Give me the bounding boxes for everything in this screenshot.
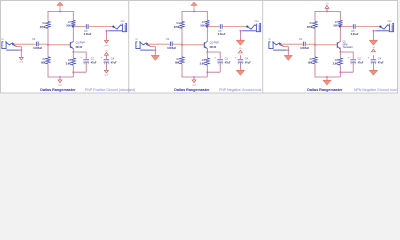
wire: top rail left drop to R1 panel p3 xyxy=(314,11,316,21)
wire: output sleeve to ground panel p3 xyxy=(372,31,374,40)
svg-text:-9V: -9V xyxy=(239,48,243,50)
wire: collector node down to Q1 panel p1 xyxy=(72,27,74,42)
capacitor C1 0.005uF panel p3 xyxy=(302,42,304,47)
junction dot: supply tap panel p1 xyxy=(59,11,61,13)
output jack tip contact panel p1 xyxy=(113,25,122,29)
wire: C2 bottom panel p2 xyxy=(219,63,221,73)
wire: base node down to R2 panel p1 xyxy=(47,45,49,57)
wire: input jack sleeve panel p2 xyxy=(140,49,153,51)
junction dot: output sleeve corner panel p2 xyxy=(240,30,242,32)
svg-text:3.9K: 3.9K xyxy=(66,62,71,65)
ground symbol: bottom rail panel p3 xyxy=(326,77,328,80)
wire: output sleeve to ground panel p2 xyxy=(239,31,241,40)
wire: top supply rail panel p1 xyxy=(48,11,73,13)
wire: base node to Q1 base panel p1 xyxy=(48,44,70,46)
wire: top supply rail panel p3 xyxy=(315,11,340,13)
svg-text:Out: Out xyxy=(255,20,259,23)
junction dot: output sleeve corner panel p3 xyxy=(373,30,375,32)
wire: R4/C2 join to bottom rail panel p3 xyxy=(340,72,353,77)
wire: top rail right drop to R3 panel p3 xyxy=(339,11,341,20)
ground symbol: input jack panel p1 xyxy=(19,57,23,60)
capacitor C3 0.01uF panel p1 xyxy=(85,24,87,29)
svg-text:Q1 PNP: Q1 PNP xyxy=(76,41,86,44)
svg-text:0.005uF: 0.005uF xyxy=(167,47,176,50)
input jack ring contact panel p3 xyxy=(280,45,284,47)
svg-text:Q1 PNP: Q1 PNP xyxy=(210,41,220,44)
wire: R4/C2 join to bottom rail panel p2 xyxy=(207,72,220,77)
wire: bottom rail panel p3 xyxy=(315,76,340,78)
junction dot: R4/C2 join panel p2 xyxy=(206,71,208,73)
sheet border frame xyxy=(1,1,398,94)
resistor R3 10K panel p3 xyxy=(338,20,342,26)
wire: emitter node over to C2 panel p2 xyxy=(207,52,220,59)
wire: bottom rail panel p1 xyxy=(48,76,73,78)
svg-text:NPN Negative Ground mod: NPN Negative Ground mod xyxy=(354,88,397,92)
capacitor C3 0.01uF panel p2 xyxy=(219,24,221,29)
wire: port to C4 panel p2 xyxy=(239,55,241,59)
junction dot: supply tap panel p2 xyxy=(193,11,195,13)
wire: C1 to base node panel p2 xyxy=(173,43,182,45)
resistor R4 3.9K panel p2 xyxy=(205,58,209,65)
junction dot: output sleeve corner panel p1 xyxy=(106,30,108,32)
svg-text:47uF: 47uF xyxy=(111,62,117,65)
svg-text:47uF: 47uF xyxy=(245,62,251,65)
wire: port to C4 panel p3 xyxy=(372,55,374,59)
wire: input sleeve to ground panel p1 xyxy=(20,47,22,58)
junction dot: bottom rail tap panel p1 xyxy=(59,76,61,78)
input jack ring contact panel p1 xyxy=(13,45,17,47)
svg-text:+9V: +9V xyxy=(371,47,375,49)
output jack tip contact panel p3 xyxy=(380,25,389,29)
svg-text:0.005uF: 0.005uF xyxy=(300,47,309,50)
junction dot: emitter node panel p1 xyxy=(72,51,74,53)
svg-text:Out: Out xyxy=(388,20,392,23)
Q1 NPN emitter arrow panel p3 xyxy=(339,47,341,49)
junction dot: output tip node panel p1 xyxy=(112,26,114,28)
wire: input sleeve to ground panel p3 xyxy=(287,47,289,56)
wire: emitter node over to C2 panel p3 xyxy=(340,52,353,59)
svg-text:47uF: 47uF xyxy=(225,62,231,65)
junction dot: input sleeve node panel p2 xyxy=(154,49,156,51)
wire: R4 to join panel p3 xyxy=(339,65,341,72)
wire: C4 to ground panel p1 xyxy=(105,63,107,71)
resistor R1 470K panel p1 xyxy=(46,21,50,28)
svg-text:470K: 470K xyxy=(174,26,180,29)
wire: input sleeve to ground panel p2 xyxy=(154,47,156,56)
svg-text:0.005uF: 0.005uF xyxy=(33,47,42,50)
wire: C2 bottom panel p3 xyxy=(352,63,354,73)
svg-text:470K: 470K xyxy=(40,26,46,29)
transistor Q1 panel p3 xyxy=(336,42,338,48)
svg-text:10K: 10K xyxy=(200,25,205,28)
junction dot: output tip node panel p2 xyxy=(246,26,248,28)
input jack ring contact panel p2 xyxy=(147,45,151,47)
svg-text:68K: 68K xyxy=(308,62,313,65)
resistor R2 68K panel p1 xyxy=(46,57,50,64)
power port +9V panel p3 xyxy=(326,8,328,11)
junction dot: collector node panel p2 xyxy=(206,26,208,28)
wire: collector to C3 panel p2 xyxy=(207,26,219,28)
wire: C3 to output jack panel p1 xyxy=(89,26,114,28)
junction dot: R4/C2 join panel p1 xyxy=(72,71,74,73)
svg-text:47uF: 47uF xyxy=(358,62,364,65)
capacitor C2 47uF panel p2 xyxy=(217,59,223,61)
power arrow -9V supply flag panel p2 xyxy=(193,5,195,12)
input jack tip contact panel p3 xyxy=(273,42,280,45)
svg-text:47uF: 47uF xyxy=(378,62,384,65)
wire: R4 to join panel p2 xyxy=(206,65,208,72)
junction dot: bottom rail tap panel p3 xyxy=(326,76,328,78)
Q1 PNP emitter arrow panel p1 xyxy=(71,47,73,49)
wire: output jack sleeve panel p1 xyxy=(108,30,122,32)
junction dot: input sleeve node panel p1 xyxy=(20,49,22,51)
wire: base node to Q1 base panel p3 xyxy=(315,44,337,46)
wire: C2 bottom panel p1 xyxy=(85,63,87,73)
capacitor C2 47uF panel p1 xyxy=(83,59,89,61)
svg-text:NPN: NPN xyxy=(343,44,348,46)
capacitor C2 47uF panel p3 xyxy=(350,59,356,61)
panel divider 1 xyxy=(128,1,130,94)
resistor R1 470K panel p2 xyxy=(180,21,184,28)
wire: R2 to bottom rail panel p2 xyxy=(181,64,183,78)
wire: top rail left drop to R1 panel p1 xyxy=(47,11,49,21)
wire: top rail right drop to R3 panel p1 xyxy=(72,11,74,20)
wire: C1 to base node panel p3 xyxy=(306,43,315,45)
svg-text:+9V: +9V xyxy=(325,4,329,6)
svg-text:PNP Positive Ground (standard): PNP Positive Ground (standard) xyxy=(85,88,135,92)
svg-text:10K: 10K xyxy=(333,25,338,28)
wire: base node down to R2 panel p2 xyxy=(181,45,183,57)
resistor R3 10K panel p2 xyxy=(205,20,209,26)
panel divider 2 xyxy=(262,1,264,94)
svg-text:Dallas Rangemaster: Dallas Rangemaster xyxy=(40,88,76,92)
wire: output jack sleeve panel p2 xyxy=(242,30,256,32)
wire: C4 to ground panel p2 xyxy=(239,63,241,71)
svg-text:3.9K: 3.9K xyxy=(333,62,338,65)
wire: Q1 emitter down panel p3 xyxy=(340,49,342,52)
resistor R1 470K panel p3 xyxy=(313,21,317,28)
wire: Q1 emitter down panel p2 xyxy=(207,49,209,52)
wire: R1 to base node panel p1 xyxy=(47,28,49,44)
svg-text:PNP Negative Ground mod: PNP Negative Ground mod xyxy=(219,88,261,92)
svg-text:0.01uF: 0.01uF xyxy=(84,33,92,36)
junction dot: output tip node panel p3 xyxy=(379,26,381,28)
ground symbol: input jack panel p3 xyxy=(284,55,292,60)
ground symbol: bottom rail panel p2 xyxy=(193,77,195,80)
capacitor C1 0.005uF panel p2 xyxy=(169,42,171,47)
wire: R2 to bottom rail panel p1 xyxy=(47,64,49,78)
wire: top supply rail panel p2 xyxy=(182,11,207,13)
wire: R2 to bottom rail panel p3 xyxy=(314,64,316,78)
ground symbol: output jack panel p3 xyxy=(369,40,377,45)
wire: input jack sleeve panel p3 xyxy=(273,49,286,51)
junction dot: R4/C2 join panel p3 xyxy=(339,71,341,73)
ground symbol: bottom rail panel p1 xyxy=(59,77,61,80)
wire: collector to C3 panel p1 xyxy=(73,26,85,28)
resistor R2 68K panel p3 xyxy=(313,57,317,64)
svg-text:47uF: 47uF xyxy=(91,62,97,65)
svg-text:-9V: -9V xyxy=(105,50,109,52)
ground symbol: C4 panel p2 xyxy=(236,70,244,75)
input jack tip contact panel p2 xyxy=(140,42,147,45)
wire: emitter node to R4 panel p1 xyxy=(72,52,74,58)
resistor R4 3.9K panel p1 xyxy=(71,58,75,65)
wire: base node to Q1 base panel p2 xyxy=(182,44,204,46)
junction dot: base node panel p3 xyxy=(314,44,316,46)
wire: emitter node to R4 panel p3 xyxy=(339,52,341,58)
schematic sheet background xyxy=(0,0,398,93)
wire: C1 to base node panel p1 xyxy=(39,43,48,45)
wire: input tip to C1 panel p3 xyxy=(280,43,302,45)
power arrow -9V supply flag panel p1 xyxy=(59,5,61,12)
wire: port to C4 panel p1 xyxy=(105,55,107,59)
transistor Q1 panel p2 xyxy=(203,42,205,48)
wire: collector node down to Q1 panel p2 xyxy=(206,27,208,42)
ground symbol: output jack panel p2 xyxy=(236,40,244,45)
wire: bottom rail panel p2 xyxy=(182,76,207,78)
svg-text:0.01uF: 0.01uF xyxy=(351,33,359,36)
svg-text:68K: 68K xyxy=(175,62,180,65)
junction dot: base node panel p2 xyxy=(181,44,183,46)
resistor R4 3.9K panel p3 xyxy=(338,58,342,65)
capacitor C1 0.005uF panel p1 xyxy=(35,42,37,47)
svg-text:3.9K: 3.9K xyxy=(200,62,205,65)
junction dot: input tip node panel p3 xyxy=(279,43,281,45)
junction dot: emitter node panel p3 xyxy=(339,51,341,53)
ground symbol: C4 panel p3 xyxy=(369,70,377,75)
wire: collector to C3 panel p3 xyxy=(340,26,352,28)
svg-text:470K: 470K xyxy=(307,26,313,29)
wire: input tip to C1 panel p2 xyxy=(147,43,169,45)
ground symbol: output jack panel p1 xyxy=(104,40,108,43)
Q1 PNP emitter arrow panel p2 xyxy=(205,47,207,49)
wire: R1 to base node panel p3 xyxy=(314,28,316,44)
svg-text:OC44: OC44 xyxy=(76,46,83,49)
wire: emitter node over to C2 panel p1 xyxy=(73,52,86,59)
output jack tip contact panel p2 xyxy=(247,25,256,29)
transistor Q1 panel p1 xyxy=(69,42,71,48)
input jack tip contact panel p1 xyxy=(6,42,13,45)
svg-text:Dallas Rangemaster: Dallas Rangemaster xyxy=(174,88,210,92)
wire: R4/C2 join to bottom rail panel p1 xyxy=(73,72,86,77)
junction dot: input tip node panel p1 xyxy=(12,43,14,45)
capacitor C3 0.01uF panel p3 xyxy=(352,24,354,29)
wire: C4 to ground panel p3 xyxy=(372,63,374,71)
junction dot: emitter node panel p2 xyxy=(206,51,208,53)
resistor R3 10K panel p1 xyxy=(71,20,75,26)
wire: input tip to C1 panel p1 xyxy=(13,43,35,45)
wire: C3 to output jack panel p3 xyxy=(356,26,381,28)
resistor R2 68K panel p2 xyxy=(180,57,184,64)
wire: emitter node to R4 panel p2 xyxy=(206,52,208,58)
svg-text:0.01uF: 0.01uF xyxy=(218,33,226,36)
capacitor C4 47uF panel p1 xyxy=(104,59,110,61)
junction dot: supply tap panel p3 xyxy=(326,11,328,13)
wire: top rail right drop to R3 panel p2 xyxy=(206,11,208,20)
capacitor C4 47uF panel p3 xyxy=(371,59,377,61)
wire: R4 to join panel p1 xyxy=(72,65,74,72)
svg-text:68K: 68K xyxy=(41,62,46,65)
wire: collector node down to Q1 panel p3 xyxy=(339,27,341,42)
junction dot: bottom rail tap panel p2 xyxy=(193,76,195,78)
junction dot: input sleeve node panel p3 xyxy=(287,49,289,51)
wire: C3 to output jack panel p2 xyxy=(223,26,248,28)
svg-text:Out: Out xyxy=(121,20,125,23)
wire: input jack sleeve panel p1 xyxy=(6,49,19,51)
wire: top rail left drop to R1 panel p2 xyxy=(181,11,183,21)
svg-text:Transistor: Transistor xyxy=(343,46,353,49)
ground symbol: C4 panel p1 xyxy=(104,70,108,73)
wire: Q1 emitter down panel p1 xyxy=(73,49,75,52)
svg-text:OC44: OC44 xyxy=(210,46,217,49)
wire: base node down to R2 panel p3 xyxy=(314,45,316,57)
junction dot: collector node panel p1 xyxy=(72,26,74,28)
wire: output sleeve to ground panel p1 xyxy=(105,31,107,41)
wire: output jack sleeve panel p3 xyxy=(375,30,389,32)
junction dot: input tip node panel p2 xyxy=(146,43,148,45)
wire: R1 to base node panel p2 xyxy=(181,28,183,44)
junction dot: collector node panel p3 xyxy=(339,26,341,28)
junction dot: base node panel p1 xyxy=(47,44,49,46)
ground symbol: input jack panel p2 xyxy=(151,55,159,60)
svg-text:Dallas Rangemaster: Dallas Rangemaster xyxy=(307,88,343,92)
capacitor C4 47uF panel p2 xyxy=(238,59,244,61)
svg-text:10K: 10K xyxy=(66,25,71,28)
